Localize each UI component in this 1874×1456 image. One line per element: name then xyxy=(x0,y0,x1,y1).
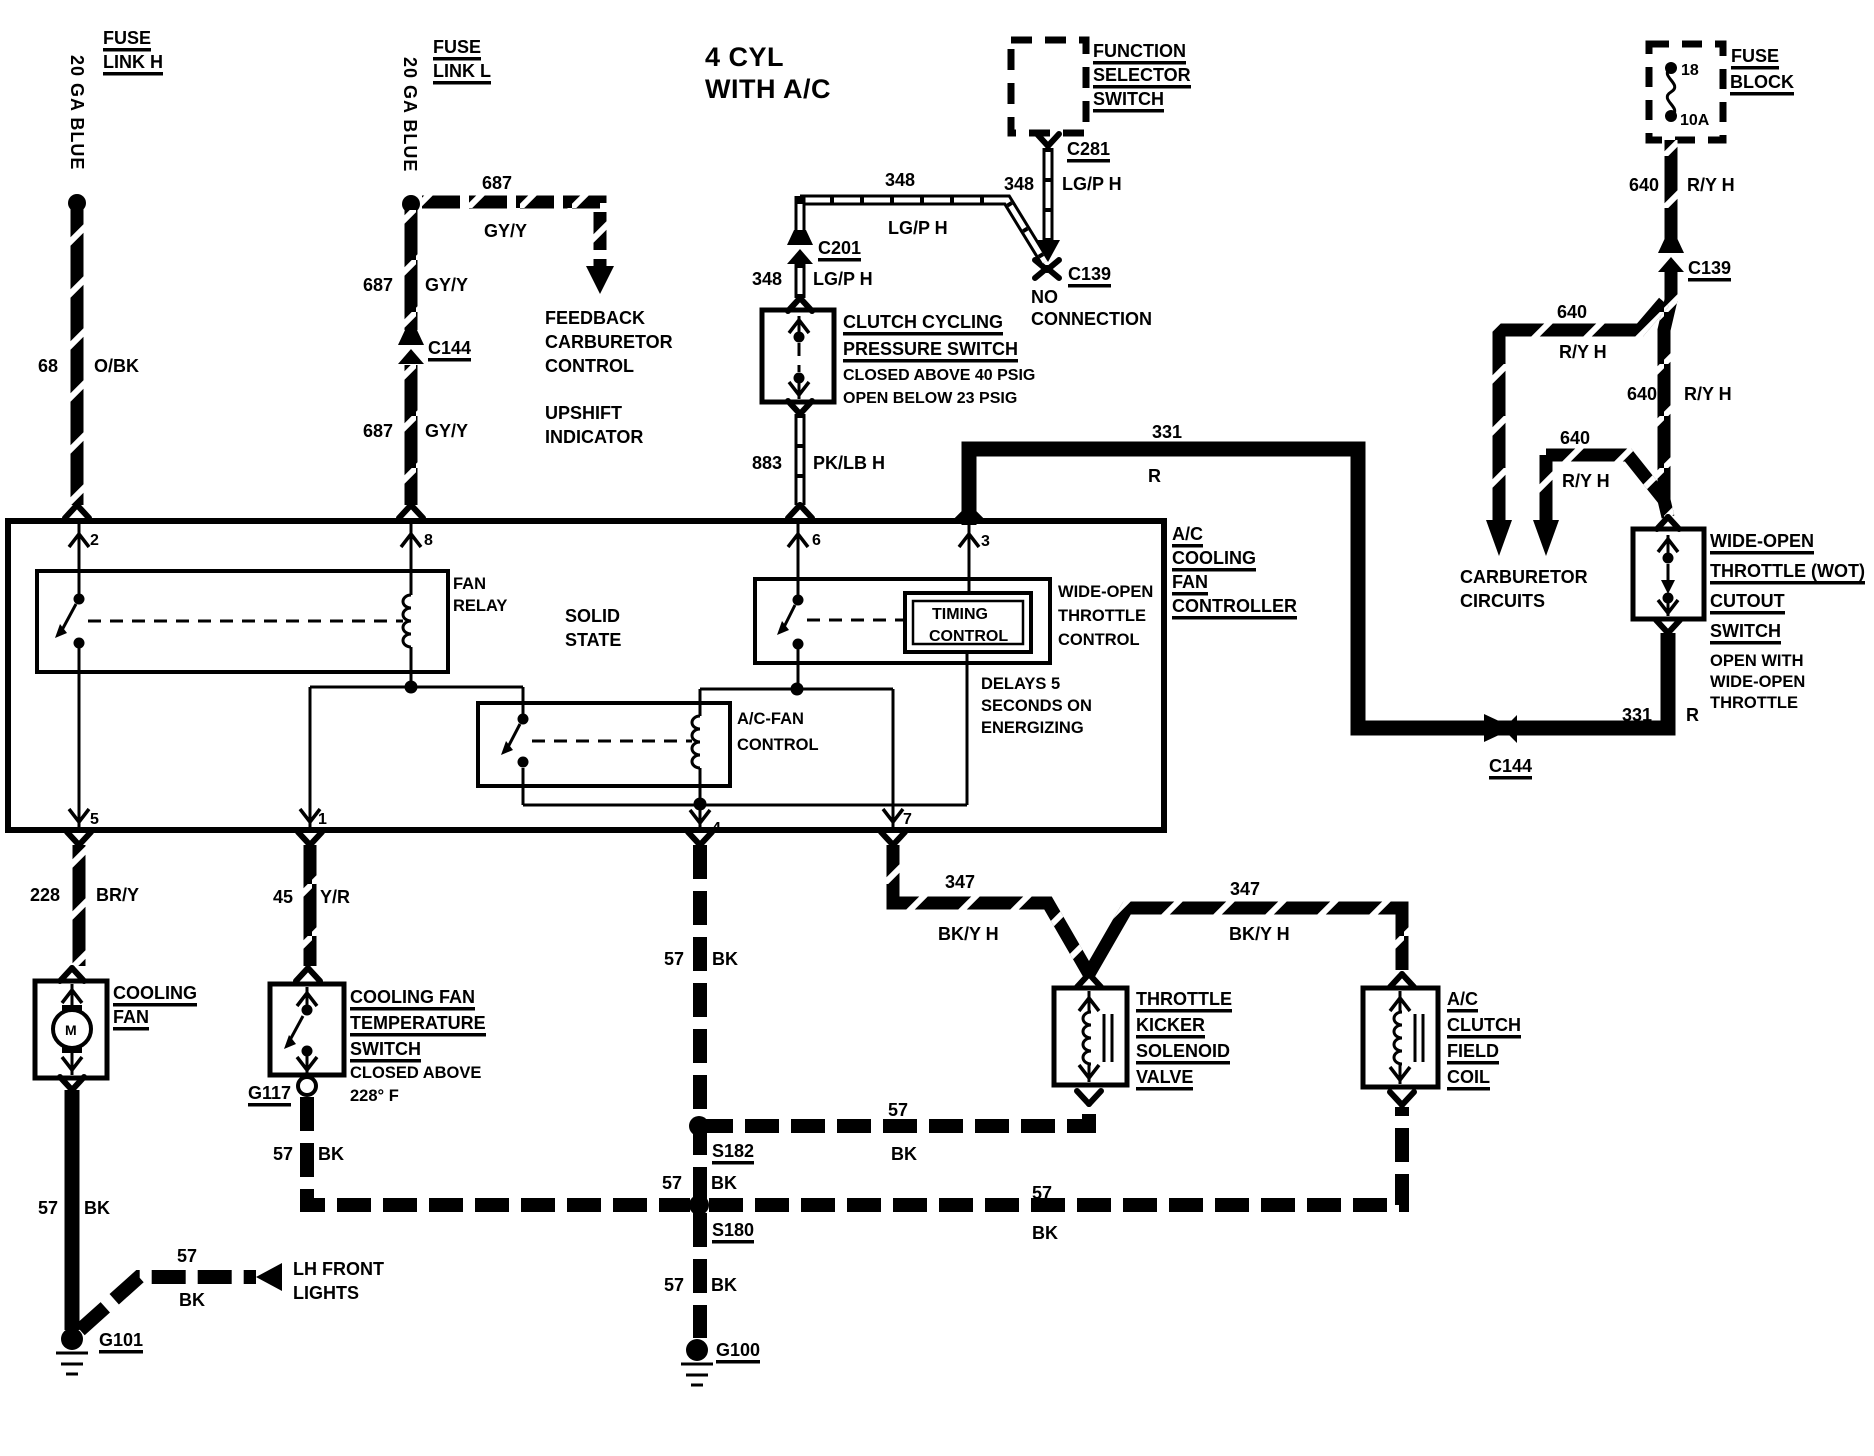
svg-text:6: 6 xyxy=(812,532,821,549)
cooling fan temperature switch box xyxy=(270,984,344,1075)
timing control box xyxy=(905,593,1031,652)
node: junction at pin 4 xyxy=(694,798,707,811)
wire rail from junction xyxy=(310,686,523,689)
svg-text:640: 640 xyxy=(1629,175,1659,195)
svg-text:FUNCTION: FUNCTION xyxy=(1093,41,1186,61)
wire 45 Y/R xyxy=(304,845,317,966)
svg-text:BK: BK xyxy=(318,1144,344,1164)
wire 640 fuse labels xyxy=(1629,175,1735,195)
wire 348 LG/P H to pressure switch xyxy=(795,264,806,298)
arrow branch 2 to carburetor circuits xyxy=(1533,520,1559,556)
svg-text:PK/LB H: PK/LB H xyxy=(813,453,885,473)
node: fuse link L terminal dot xyxy=(402,195,420,213)
wire 883 PK/LB H xyxy=(795,414,806,505)
svg-text:20 GA BLUE: 20 GA BLUE xyxy=(67,55,87,170)
svg-text:A/C: A/C xyxy=(1447,989,1478,1009)
svg-text:C144: C144 xyxy=(1489,756,1532,776)
svg-text:M: M xyxy=(65,1022,77,1038)
terminal fork above cooling fan xyxy=(60,968,84,981)
A/C cooling fan controller box xyxy=(8,521,1164,830)
wire 57 pin4 labels xyxy=(664,949,738,969)
wire 687 branch labels xyxy=(482,173,527,241)
svg-text:A/C-FAN: A/C-FAN xyxy=(737,710,804,728)
svg-text:LH FRONT: LH FRONT xyxy=(293,1259,384,1279)
svg-text:PRESSURE SWITCH: PRESSURE SWITCH xyxy=(843,339,1018,359)
connector C139 (no connection) symbol xyxy=(1035,260,1059,278)
terminal fork at pin 2 xyxy=(65,505,89,518)
svg-text:KICKER: KICKER xyxy=(1136,1015,1205,1035)
terminal fork below pin 5 xyxy=(67,832,91,845)
clutch cycling pressure switch box xyxy=(762,310,834,402)
pressure switch internal: dashed actuator line xyxy=(798,343,801,372)
svg-text:LG/P H: LG/P H xyxy=(813,269,873,289)
A/C clutch internals xyxy=(1390,991,1423,1084)
fuse block (dashed box) xyxy=(1649,44,1723,140)
svg-text:COOLING: COOLING xyxy=(113,983,197,1003)
WOT switch internal: top arrow xyxy=(1658,535,1678,553)
bottom rail xyxy=(523,804,967,807)
connector C201 xyxy=(787,230,813,264)
wire 57 branch labels xyxy=(177,1246,205,1310)
svg-text:BK: BK xyxy=(891,1144,917,1164)
terminal fork below pin 4 xyxy=(688,832,712,845)
svg-text:CARBURETOR: CARBURETOR xyxy=(1460,567,1588,587)
svg-text:INDICATOR: INDICATOR xyxy=(545,427,643,447)
wire 57 labels above G100 xyxy=(664,1275,737,1295)
wire 228 BR/Y xyxy=(73,845,86,966)
fan relay box xyxy=(37,571,448,672)
fan relay label xyxy=(453,575,507,615)
svg-text:R: R xyxy=(1148,466,1161,486)
svg-text:Y/R: Y/R xyxy=(320,887,350,907)
svg-text:BK: BK xyxy=(711,1173,737,1193)
svg-text:57: 57 xyxy=(664,1275,684,1295)
no connection text xyxy=(1031,287,1152,329)
terminal fork below A/C clutch field coil xyxy=(1390,1092,1414,1105)
pin 2 lead xyxy=(69,524,99,594)
svg-text:640: 640 xyxy=(1560,428,1590,448)
wire 347 BK/Y H left segment xyxy=(893,845,1089,974)
svg-text:CLUTCH CYCLING: CLUTCH CYCLING xyxy=(843,312,1003,332)
wire 640 R/Y H from fuse block xyxy=(1665,140,1678,240)
cooling fan label xyxy=(113,983,197,1027)
terminal fork above WOT cutout switch xyxy=(1657,517,1679,529)
WOT switch internal: bottom arrow xyxy=(1658,600,1678,616)
carburetor circuits text xyxy=(1460,567,1588,611)
wire 348 lower labels xyxy=(752,269,873,289)
svg-text:CLUTCH: CLUTCH xyxy=(1447,1015,1521,1035)
svg-text:SOLENOID: SOLENOID xyxy=(1136,1041,1230,1061)
svg-text:FAN: FAN xyxy=(113,1007,149,1027)
svg-text:THROTTLE: THROTTLE xyxy=(1058,607,1146,625)
svg-text:COOLING: COOLING xyxy=(1172,548,1256,568)
svg-text:FAN: FAN xyxy=(1172,572,1208,592)
svg-text:NO: NO xyxy=(1031,287,1058,307)
wire 347 BK/Y H right segment xyxy=(1089,908,1402,974)
wire 57 labels between S182 and S180 xyxy=(662,1173,737,1193)
node: junction on top rail (WOT control drop) xyxy=(791,683,804,696)
svg-text:331: 331 xyxy=(1622,705,1652,725)
svg-text:CONTROL: CONTROL xyxy=(737,736,819,754)
wire 57 BK dashed branch to LH front lights xyxy=(80,1277,256,1330)
svg-text:640: 640 xyxy=(1557,302,1587,322)
fan relay switch xyxy=(55,594,85,649)
LH front lights text xyxy=(293,1259,384,1303)
svg-text:SWITCH: SWITCH xyxy=(1093,89,1164,109)
wire 348 horizontal labels xyxy=(885,170,948,238)
a/c-fan control dashed link xyxy=(532,740,692,743)
svg-text:G117: G117 xyxy=(248,1083,291,1103)
wire 57 G117 labels xyxy=(273,1144,344,1164)
svg-text:R: R xyxy=(1686,705,1699,725)
connector C144 (on wire 331) xyxy=(1484,714,1517,743)
svg-text:GY/Y: GY/Y xyxy=(484,221,527,241)
fuse link H label xyxy=(103,28,163,72)
throttle kicker solenoid valve box xyxy=(1054,988,1127,1085)
wire 687 branch to feedback carburetor control xyxy=(422,202,600,266)
pin 7 lead xyxy=(883,689,912,828)
svg-text:COIL: COIL xyxy=(1447,1067,1490,1087)
wire 68 O/BK xyxy=(71,208,84,505)
pin 4 lead xyxy=(690,805,721,837)
terminal fork at C281 xyxy=(1037,134,1059,146)
svg-text:687: 687 xyxy=(363,421,393,441)
svg-text:FEEDBACK: FEEDBACK xyxy=(545,308,645,328)
fuse block label xyxy=(1730,46,1794,92)
svg-text:R/Y H: R/Y H xyxy=(1562,471,1610,491)
wire 347 right labels xyxy=(1229,879,1290,944)
wire 640 branch 1 to carburetor circuits xyxy=(1499,302,1664,520)
svg-text:5: 5 xyxy=(90,811,99,828)
cooling fan motor xyxy=(53,984,91,1075)
WOT control dashed link xyxy=(807,619,905,622)
svg-text:BR/Y: BR/Y xyxy=(96,885,139,905)
svg-text:CONTROLLER: CONTROLLER xyxy=(1172,596,1297,616)
A/C cooling fan controller label xyxy=(1172,524,1297,616)
fuse link L label xyxy=(433,37,491,81)
WOT control switch xyxy=(777,595,804,650)
arrow to feedback carburetor control xyxy=(586,266,614,294)
svg-text:R/Y H: R/Y H xyxy=(1684,384,1732,404)
svg-text:BK: BK xyxy=(1032,1223,1058,1243)
svg-text:57: 57 xyxy=(177,1246,197,1266)
svg-text:THROTTLE (WOT): THROTTLE (WOT) xyxy=(1710,561,1865,581)
svg-text:228: 228 xyxy=(30,885,60,905)
svg-text:TIMING: TIMING xyxy=(932,606,988,623)
svg-text:C144: C144 xyxy=(428,338,471,358)
pressure switch internal: bottom arrow xyxy=(789,382,809,399)
svg-text:WIDE-OPEN: WIDE-OPEN xyxy=(1058,583,1153,601)
wire 57 BK dashed from S180 to A/C clutch xyxy=(709,1107,1402,1205)
svg-text:348: 348 xyxy=(752,269,782,289)
pressure switch internal: lower contact dot xyxy=(794,373,805,384)
ground G101 xyxy=(56,1328,88,1374)
svg-text:GY/Y: GY/Y xyxy=(425,275,468,295)
svg-text:347: 347 xyxy=(1230,879,1260,899)
svg-text:SWITCH: SWITCH xyxy=(1710,621,1781,641)
svg-text:SELECTOR: SELECTOR xyxy=(1093,65,1191,85)
connector C144 (on wire 687) xyxy=(398,330,424,364)
svg-text:WIDE-OPEN: WIDE-OPEN xyxy=(1710,673,1805,691)
pin 3 lead xyxy=(959,524,990,593)
svg-text:BK/Y H: BK/Y H xyxy=(938,924,999,944)
terminal fork below cooling fan xyxy=(60,1077,84,1090)
svg-text:FIELD: FIELD xyxy=(1447,1041,1499,1061)
fan relay coil xyxy=(403,571,411,687)
svg-text:THROTTLE: THROTTLE xyxy=(1136,989,1232,1009)
wire 640 branch 2 to carburetor circuits xyxy=(1546,455,1664,520)
svg-text:CONTROL: CONTROL xyxy=(1058,631,1140,649)
svg-text:CONNECTION: CONNECTION xyxy=(1031,309,1152,329)
svg-text:BK/Y H: BK/Y H xyxy=(1229,924,1290,944)
terminal fork above temperature switch xyxy=(296,968,320,981)
svg-text:O/BK: O/BK xyxy=(94,356,139,376)
svg-text:57: 57 xyxy=(1032,1183,1052,1203)
feedback carburetor control text xyxy=(545,308,673,376)
svg-text:883: 883 xyxy=(752,453,782,473)
a/c-fan switch output drop xyxy=(522,768,525,805)
svg-text:2: 2 xyxy=(90,532,99,549)
A/C clutch field coil labels xyxy=(1447,989,1521,1087)
svg-text:CARBURETOR: CARBURETOR xyxy=(545,332,673,352)
pin 8 lead xyxy=(401,524,433,594)
svg-text:C139: C139 xyxy=(1068,264,1111,284)
wire 57 BK dashed from S182 to throttle kicker xyxy=(699,1104,1089,1126)
wire 348 LG/P H horizontal run xyxy=(800,200,1045,262)
svg-text:LINK L: LINK L xyxy=(433,61,491,81)
cooling fan box xyxy=(35,981,107,1078)
svg-text:57: 57 xyxy=(273,1144,293,1164)
svg-text:OPEN BELOW 23 PSIG: OPEN BELOW 23 PSIG xyxy=(843,390,1017,407)
svg-text:BK: BK xyxy=(179,1290,205,1310)
WOT switch internal: upper dot xyxy=(1663,553,1674,564)
svg-text:SWITCH: SWITCH xyxy=(350,1039,421,1059)
svg-text:S180: S180 xyxy=(712,1220,754,1240)
svg-text:18: 18 xyxy=(1681,62,1699,79)
svg-text:57: 57 xyxy=(662,1173,682,1193)
wire 57 S180 labels xyxy=(1032,1183,1058,1243)
A/C clutch field coil box xyxy=(1363,988,1438,1087)
wire 68 labels xyxy=(38,356,139,376)
svg-text:57: 57 xyxy=(38,1198,58,1218)
wire 687 GY/Y vertical lower xyxy=(405,365,418,505)
solid state text xyxy=(565,606,621,650)
svg-text:10A: 10A xyxy=(1680,112,1710,129)
wire 687 GY/Y vertical upper xyxy=(405,210,418,330)
svg-text:DELAYS 5: DELAYS 5 xyxy=(981,675,1060,693)
arrow at end of wire 348 xyxy=(1036,240,1060,262)
svg-text:FUSE: FUSE xyxy=(1731,46,1779,66)
svg-text:G101: G101 xyxy=(99,1330,143,1350)
svg-text:LINK H: LINK H xyxy=(103,52,163,72)
timing control label xyxy=(929,606,1008,645)
wire 687 upper labels xyxy=(363,275,468,295)
terminal fork above pressure switch xyxy=(788,298,812,311)
svg-text:57: 57 xyxy=(664,949,684,969)
wire 331 top labels xyxy=(1148,422,1182,486)
svg-text:TEMPERATURE: TEMPERATURE xyxy=(350,1013,486,1033)
function selector switch label xyxy=(1093,41,1191,109)
svg-text:CUTOUT: CUTOUT xyxy=(1710,591,1785,611)
svg-text:C201: C201 xyxy=(818,238,861,258)
wire 348 C281 labels xyxy=(1004,174,1122,194)
svg-text:RELAY: RELAY xyxy=(453,597,507,615)
wire 640 branch 1 labels xyxy=(1557,302,1607,362)
wire 57 solid labels xyxy=(38,1198,110,1218)
a/c-fan control box xyxy=(478,703,730,786)
upshift indicator text xyxy=(545,403,643,447)
svg-text:R/Y H: R/Y H xyxy=(1559,342,1607,362)
WOT cutout switch labels xyxy=(1710,531,1865,712)
fuse element 18 / 10A xyxy=(1665,62,1710,129)
terminal fork above throttle kicker xyxy=(1077,974,1101,987)
terminal fork below throttle kicker xyxy=(1077,1091,1101,1104)
pressure switch internal: upper contact dot xyxy=(794,332,805,343)
clutch cycling pressure switch labels xyxy=(843,312,1035,407)
svg-text:1: 1 xyxy=(318,811,327,828)
svg-text:SECONDS ON: SECONDS ON xyxy=(981,697,1092,715)
a/c-fan control feed drop xyxy=(522,687,525,714)
svg-text:3: 3 xyxy=(981,533,990,550)
terminal fork at pin 3 (thick) xyxy=(956,508,982,521)
svg-text:C139: C139 xyxy=(1688,258,1731,278)
pin 6 lead xyxy=(788,524,821,595)
svg-text:WITH A/C: WITH A/C xyxy=(705,74,831,104)
wire 331 R thick path from pin 3 to WOT switch xyxy=(969,449,1668,728)
svg-text:FAN: FAN xyxy=(453,575,486,593)
wire 57 BK dashed from G117 to S180 xyxy=(307,1097,690,1205)
svg-text:348: 348 xyxy=(1004,174,1034,194)
svg-text:7: 7 xyxy=(903,811,912,828)
arrow branch 1 to carburetor circuits xyxy=(1486,520,1512,556)
WOT control switch drop to rail xyxy=(797,649,800,689)
svg-text:ENERGIZING: ENERGIZING xyxy=(981,719,1084,737)
svg-text:OPEN WITH: OPEN WITH xyxy=(1710,652,1804,670)
fan relay dashed link xyxy=(88,620,403,623)
wire 57 BK solid from cooling fan xyxy=(65,1090,80,1330)
svg-text:BK: BK xyxy=(84,1198,110,1218)
wire 347 left labels xyxy=(938,872,999,944)
svg-text:SOLID: SOLID xyxy=(565,606,620,626)
svg-text:FUSE: FUSE xyxy=(103,28,151,48)
wide-open throttle control box xyxy=(755,579,1050,663)
svg-text:CONTROL: CONTROL xyxy=(929,628,1008,645)
temperature switch internals xyxy=(284,987,317,1073)
timing control drop to bottom rail xyxy=(966,652,969,805)
svg-text:FUSE: FUSE xyxy=(433,37,481,57)
terminal fork at pin 6 xyxy=(788,505,812,518)
pin 1 lead xyxy=(300,687,327,828)
svg-text:348: 348 xyxy=(885,170,915,190)
terminal fork below pin 1 xyxy=(298,832,322,845)
svg-text:CLOSED ABOVE: CLOSED ABOVE xyxy=(350,1064,481,1082)
svg-text:LG/P H: LG/P H xyxy=(888,218,948,238)
wire 45 labels xyxy=(273,887,350,907)
ground G117 circle xyxy=(298,1077,316,1095)
splice S182 xyxy=(689,1116,709,1136)
wire 640 branch 2 labels xyxy=(1560,428,1610,491)
svg-text:C281: C281 xyxy=(1067,139,1110,159)
svg-text:BK: BK xyxy=(711,1275,737,1295)
WOT switch internal: lower dot xyxy=(1663,593,1674,604)
wire 687 lower labels xyxy=(363,421,468,441)
throttle kicker internals xyxy=(1079,991,1112,1082)
svg-text:CONTROL: CONTROL xyxy=(545,356,634,376)
svg-text:LIGHTS: LIGHTS xyxy=(293,1283,359,1303)
svg-text:331: 331 xyxy=(1152,422,1182,442)
svg-text:57: 57 xyxy=(888,1100,908,1120)
svg-text:CIRCUITS: CIRCUITS xyxy=(1460,591,1545,611)
svg-text:A/C: A/C xyxy=(1172,524,1203,544)
LH front lights arrow xyxy=(256,1263,282,1291)
svg-text:UPSHIFT: UPSHIFT xyxy=(545,403,622,423)
svg-text:BK: BK xyxy=(712,949,738,969)
svg-text:CLOSED ABOVE 40 PSIG: CLOSED ABOVE 40 PSIG xyxy=(843,367,1035,384)
wire 348 corner down to C201 xyxy=(795,196,806,234)
wire 331 lower labels xyxy=(1622,705,1699,725)
wire 348 LG/P H from C281 down to C139 xyxy=(1043,148,1054,242)
terminal fork below pin 7 xyxy=(881,832,905,845)
svg-text:VALVE: VALVE xyxy=(1136,1067,1193,1087)
a/c-fan control label xyxy=(737,710,819,754)
wire 640 R/Y H main vertical below C139 xyxy=(1664,272,1671,517)
ground G100 xyxy=(681,1339,713,1385)
wire 228 labels xyxy=(30,885,139,905)
node: fuse link H terminal dot xyxy=(68,194,86,212)
svg-text:BLOCK: BLOCK xyxy=(1730,72,1794,92)
title 4 CYL WITH A/C xyxy=(705,42,831,104)
svg-text:GY/Y: GY/Y xyxy=(425,421,468,441)
terminal fork below pressure switch xyxy=(788,401,812,414)
svg-text:R/Y H: R/Y H xyxy=(1687,175,1735,195)
svg-text:4 CYL: 4 CYL xyxy=(705,42,784,72)
svg-text:228° F: 228° F xyxy=(350,1087,399,1105)
svg-text:20 GA BLUE: 20 GA BLUE xyxy=(400,57,420,172)
svg-text:G100: G100 xyxy=(716,1340,760,1360)
svg-text:45: 45 xyxy=(273,887,293,907)
terminal fork above A/C clutch field coil xyxy=(1390,974,1414,987)
svg-text:WIDE-OPEN: WIDE-OPEN xyxy=(1710,531,1814,551)
function selector switch (dashed box) xyxy=(1011,40,1086,133)
a/c-fan control coil xyxy=(692,689,700,803)
svg-text:COOLING FAN: COOLING FAN xyxy=(350,987,475,1007)
svg-text:640: 640 xyxy=(1627,384,1657,404)
terminal fork at pin 8 xyxy=(399,505,423,518)
wire 640 main labels xyxy=(1627,384,1732,404)
connector C139 (right) xyxy=(1658,238,1684,272)
svg-text:68: 68 xyxy=(38,356,58,376)
pin 5 lead xyxy=(69,648,99,828)
a/c-fan control switch xyxy=(501,714,529,768)
temperature switch labels xyxy=(350,987,486,1105)
WOT switch internal: actuator arrow xyxy=(1661,564,1675,594)
svg-text:347: 347 xyxy=(945,872,975,892)
svg-text:687: 687 xyxy=(363,275,393,295)
svg-text:S182: S182 xyxy=(712,1141,754,1161)
wide-open throttle cutout switch box xyxy=(1633,529,1704,619)
node: junction below fan relay coil xyxy=(405,681,418,694)
pressure switch internal: top arrow xyxy=(789,316,809,333)
wire 57 S182 labels xyxy=(888,1100,917,1164)
terminal fork below WOT cutout switch xyxy=(1656,620,1680,633)
svg-text:687: 687 xyxy=(482,173,512,193)
wide-open throttle control label xyxy=(1058,583,1153,649)
svg-text:8: 8 xyxy=(424,532,433,549)
svg-text:STATE: STATE xyxy=(565,630,621,650)
svg-text:LG/P H: LG/P H xyxy=(1062,174,1122,194)
svg-text:THROTTLE: THROTTLE xyxy=(1710,694,1798,712)
wire 57 BK dashed from pin 4 to G100 xyxy=(693,845,707,1338)
